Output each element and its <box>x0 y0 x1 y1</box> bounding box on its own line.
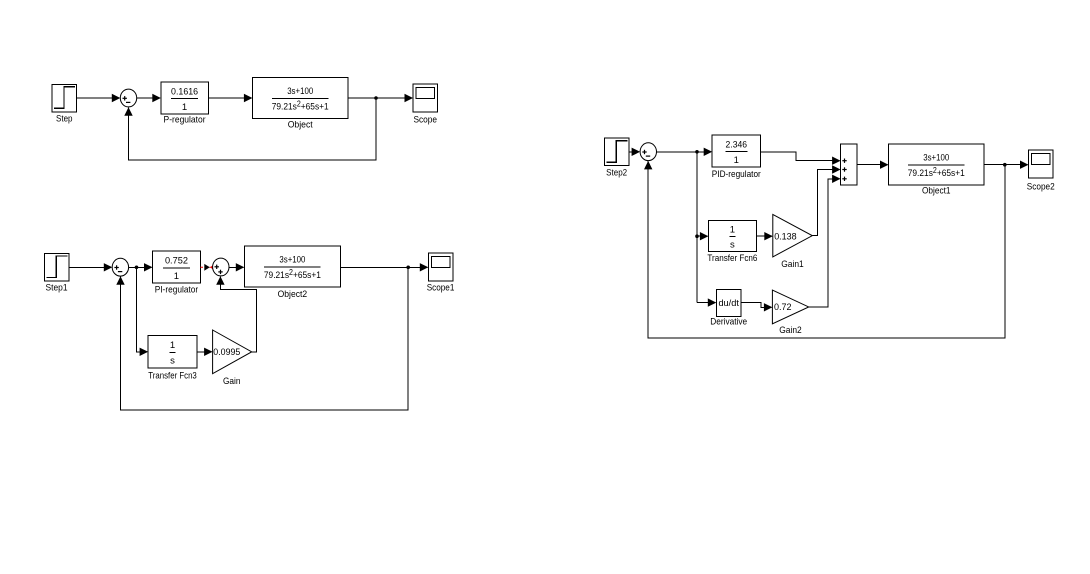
svg-text:s: s <box>170 356 175 367</box>
wire Sum2 to Object2 <box>229 263 244 271</box>
wire Gain output to Sum2 plus input <box>216 276 256 352</box>
wire Sum to P-regulator <box>137 94 161 102</box>
svg-text:79.21s2+65s+1: 79.21s2+65s+1 <box>908 166 965 179</box>
svg-text:PID-regulator: PID-regulator <box>712 169 761 180</box>
junction node after Sum3 <box>695 150 699 154</box>
transfer function Object1 (3s+100)/(79.21s2+65s+1) <box>889 144 985 196</box>
svg-text:s: s <box>730 240 735 251</box>
svg-text:3s+100: 3s+100 <box>279 255 305 266</box>
svg-text:Object: Object <box>288 119 313 130</box>
wire Sum3 to PID-regulator <box>657 148 713 156</box>
wire Object2 to Scope1 <box>341 263 429 271</box>
svg-text:Scope1: Scope1 <box>427 282 455 293</box>
wire Object1 to Scope2 <box>984 161 1029 169</box>
sum block Sum4 (+,+,+) <box>841 144 857 185</box>
svg-text:Transfer Fcn3: Transfer Fcn3 <box>148 370 197 381</box>
transfer function Transfer Fcn6 1/s <box>707 220 757 264</box>
wire Step1 to Sum1 <box>69 263 113 271</box>
junction node after Sum1 <box>135 266 139 270</box>
svg-text:2.346: 2.346 <box>726 139 748 150</box>
svg-text:Step2: Step2 <box>606 167 627 178</box>
svg-text:Derivative: Derivative <box>710 316 747 327</box>
wire Derivative to Gain2 <box>741 303 772 312</box>
svg-text:1: 1 <box>174 271 179 282</box>
gain block PID-regulator 2.346/1 <box>712 135 761 180</box>
sum junction Sum (+,-) <box>120 89 136 107</box>
svg-text:du/dt: du/dt <box>718 298 739 309</box>
wire Gain1 output to Sum4 second input <box>812 165 840 235</box>
wire Step to Sum <box>77 94 121 102</box>
feedback wire Object1 output to Sum3 minus input <box>644 161 1005 338</box>
svg-text:0.0995: 0.0995 <box>213 347 240 358</box>
transfer function Transfer Fcn3 1/s <box>148 335 197 381</box>
wire PID-regulator to Sum4 first input <box>760 152 840 165</box>
svg-text:1: 1 <box>730 224 735 235</box>
wire Step2 to Sum3 <box>629 148 640 156</box>
scope sink Scope1 <box>427 253 455 293</box>
svg-text:Step: Step <box>56 114 73 125</box>
wire Sum1 to PI-regulator <box>129 263 153 271</box>
sum junction Sum1 (+,-) <box>112 258 128 276</box>
svg-text:79.21s2+65s+1: 79.21s2+65s+1 <box>264 268 321 281</box>
junction node on Object output <box>374 96 378 100</box>
svg-text:0.72: 0.72 <box>774 302 792 313</box>
svg-text:1: 1 <box>170 340 175 351</box>
svg-text:0.752: 0.752 <box>165 256 188 267</box>
gain block PI-regulator 0.752/1 <box>153 251 201 295</box>
wire Object to Scope <box>348 94 413 102</box>
junction node on Object2 output <box>406 266 410 270</box>
svg-text:Transfer Fcn6: Transfer Fcn6 <box>707 253 757 264</box>
transfer function Object (3s+100)/(79.21s2+65s+1) <box>252 78 348 131</box>
sum junction Sum3 (+,-) <box>640 143 656 161</box>
svg-text:1: 1 <box>182 102 187 113</box>
svg-text:Object2: Object2 <box>278 289 308 300</box>
svg-text:Step1: Step1 <box>46 282 68 293</box>
svg-text:79.21s2+65s+1: 79.21s2+65s+1 <box>272 100 329 113</box>
svg-text:P-regulator: P-regulator <box>164 115 206 126</box>
gain triangle Gain2 0.72 <box>772 290 808 336</box>
gain triangle Gain 0.0995 <box>213 330 252 387</box>
feedback wire Object output to Sum minus input <box>124 98 376 160</box>
scope sink Scope <box>413 84 438 126</box>
svg-text:Gain1: Gain1 <box>781 259 804 270</box>
feedback wire Object2 output to Sum1 minus input <box>116 267 408 410</box>
branch wire down to Transfer Fcn6 and Derivative <box>695 152 716 307</box>
svg-text:1: 1 <box>734 155 739 166</box>
svg-text:PI-regulator: PI-regulator <box>155 284 199 295</box>
svg-text:Scope: Scope <box>413 115 437 126</box>
sum junction Sum2 (+,+) <box>213 258 229 276</box>
step source Step2 <box>604 138 629 178</box>
red dashed wire PI-regulator to Sum2 <box>200 264 214 271</box>
transfer function Object2 (3s+100)/(79.21s2+65s+1) <box>244 246 340 300</box>
step source Step <box>52 84 77 124</box>
svg-text:Gain: Gain <box>223 376 241 387</box>
svg-text:3s+100: 3s+100 <box>287 86 313 97</box>
wire P-regulator to Object <box>208 94 252 102</box>
step source Step1 <box>44 254 69 294</box>
wire Transfer Fcn3 to Gain <box>197 348 213 356</box>
svg-text:0.138: 0.138 <box>774 231 797 242</box>
gain triangle Gain1 0.138 <box>773 214 813 269</box>
wire Transfer Fcn6 to Gain1 <box>756 232 772 240</box>
svg-text:Gain2: Gain2 <box>779 325 802 336</box>
derivative block Derivative du/dt <box>710 289 747 327</box>
svg-text:Scope2: Scope2 <box>1027 181 1055 192</box>
svg-text:0.1616: 0.1616 <box>171 86 198 97</box>
wire Gain2 output to Sum4 third input <box>809 175 841 307</box>
junction node on Object1 output <box>1003 163 1007 167</box>
scope sink Scope2 <box>1027 150 1055 192</box>
wire Sum4 to Object1 <box>857 161 889 169</box>
svg-text:Object1: Object1 <box>922 185 951 196</box>
svg-text:3s+100: 3s+100 <box>923 153 949 164</box>
gain block P-regulator 0.1616/1 <box>161 82 209 125</box>
branch wire down to Transfer Fcn3 <box>137 267 149 356</box>
